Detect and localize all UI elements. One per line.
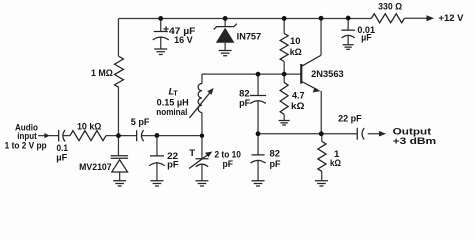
svg-text:1 to 2 V pp: 1 to 2 V pp [5, 141, 47, 152]
svg-text:+12 V: +12 V [438, 13, 464, 24]
svg-text:330 Ω: 330 Ω [378, 1, 402, 12]
svg-text:5 pF: 5 pF [131, 117, 150, 128]
svg-text:T: T [189, 148, 195, 159]
svg-text:82: 82 [269, 148, 280, 159]
svg-text:pF: pF [269, 159, 280, 170]
svg-text:µF: µF [361, 33, 372, 44]
svg-text:10: 10 [290, 36, 301, 47]
svg-text:kΩ: kΩ [290, 47, 302, 58]
svg-text:µF: µF [56, 153, 67, 164]
svg-text:2N3563: 2N3563 [311, 69, 344, 80]
svg-text:kΩ: kΩ [291, 101, 305, 112]
svg-text:4.7: 4.7 [292, 91, 305, 102]
svg-text:pF: pF [239, 98, 250, 109]
svg-text:10 kΩ: 10 kΩ [77, 122, 102, 133]
svg-text:16 V: 16 V [174, 35, 193, 46]
svg-text:T: T [173, 90, 178, 97]
svg-text:MV2107: MV2107 [79, 162, 112, 173]
svg-text:IN757: IN757 [237, 32, 262, 43]
svg-text:pF: pF [167, 159, 179, 170]
svg-text:+3 dBm: +3 dBm [393, 136, 437, 147]
svg-text:pF: pF [223, 159, 234, 170]
svg-text:1 MΩ: 1 MΩ [91, 68, 113, 79]
svg-text:kΩ: kΩ [330, 158, 341, 169]
svg-text:nominal: nominal [156, 107, 187, 118]
svg-text:22 pF: 22 pF [338, 113, 362, 124]
